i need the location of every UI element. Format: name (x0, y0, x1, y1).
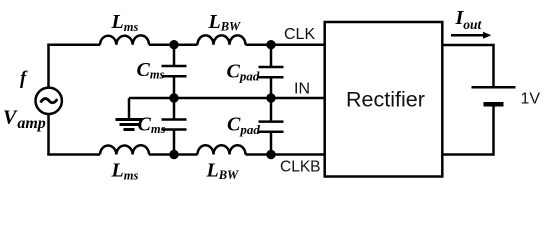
capacitor C_pad top plates (259, 67, 284, 77)
rectifier block U1 (325, 22, 443, 177)
node junction top rail right (266, 40, 275, 49)
capacitor C_pad bottom vertical leads (270, 98, 273, 155)
node junction IN rail right (266, 93, 275, 102)
capacitor C_ms top plates (162, 66, 187, 76)
wire bottom rail right segment to rectifier (246, 153, 325, 156)
wire top rail right segment to rectifier (246, 43, 325, 46)
svg-text:Rectifier: Rectifier (346, 88, 425, 112)
svg-text:LBW: LBW (208, 11, 242, 33)
wire bottom rail middle segment (149, 153, 198, 156)
svg-text:IN: IN (294, 81, 310, 98)
sine symbol inside source (41, 99, 58, 103)
wire top rail left segment (47, 43, 100, 46)
svg-text:Cms: Cms (137, 59, 165, 82)
inductor L_BW top (198, 35, 246, 44)
inductor L_ms bottom (100, 145, 149, 154)
svg-text:LBW: LBW (206, 160, 240, 182)
svg-text:CLKB: CLKB (280, 159, 321, 176)
AC voltage source V_amp circle (36, 88, 62, 114)
svg-text:Lms: Lms (111, 11, 139, 34)
node junction bottom rail right (266, 150, 275, 159)
inductor L_BW bottom (198, 145, 246, 154)
wire from source bottom to bottom rail (47, 114, 50, 155)
capacitor C_ms bottom plates (162, 120, 187, 130)
node junction top rail left (169, 40, 178, 49)
wire bottom rail left segment (47, 153, 100, 156)
inductor L_ms top (100, 35, 149, 44)
capacitor C_ms bottom vertical leads (173, 98, 176, 155)
svg-text:Lms: Lms (111, 160, 139, 183)
svg-text:f: f (20, 69, 28, 89)
node junction bottom rail left (169, 150, 178, 159)
wire left vertical from top rail to source top (47, 45, 50, 88)
capacitor C_pad top vertical leads (270, 45, 273, 98)
arrow I_out (451, 32, 491, 39)
wire ground stub (128, 98, 131, 119)
svg-text:Iout: Iout (455, 7, 483, 32)
node junction IN rail left (169, 93, 178, 102)
svg-text:Cpad: Cpad (227, 114, 260, 138)
wire rectifier output top to battery (442, 45, 493, 87)
wire IN rail (129, 97, 325, 100)
ground (116, 120, 143, 130)
battery 1V negative plate (484, 102, 504, 107)
svg-text:CLK: CLK (284, 26, 315, 43)
wire top rail middle segment (149, 43, 198, 46)
svg-text:Cpad: Cpad (227, 61, 260, 84)
svg-text:1V: 1V (521, 91, 541, 108)
capacitor C_ms top vertical leads (173, 45, 176, 98)
capacitor C_pad bottom plates (259, 122, 284, 132)
battery 1V positive plate (472, 86, 516, 89)
wire battery bottom return to rectifier (442, 104, 493, 154)
svg-text:Cms: Cms (138, 114, 166, 137)
